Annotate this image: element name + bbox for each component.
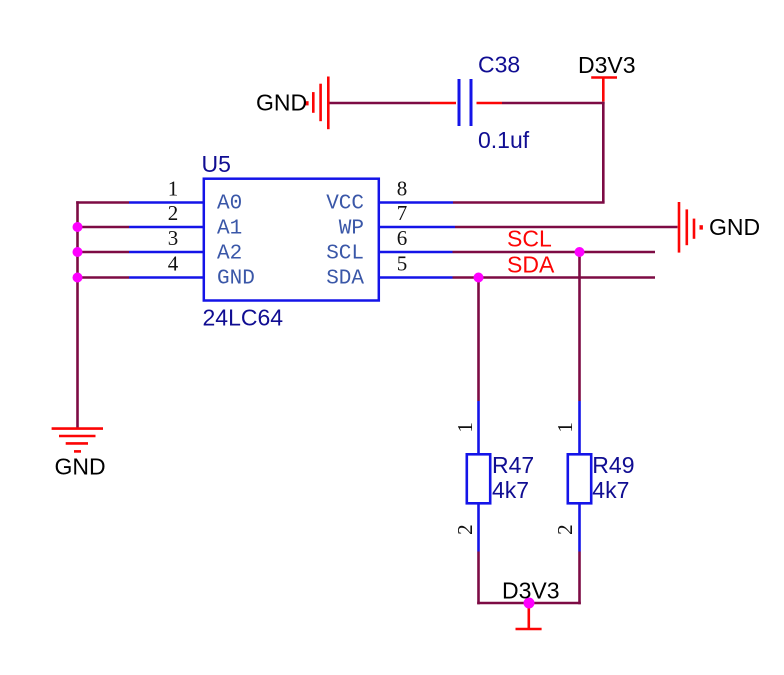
svg-text:1: 1 bbox=[453, 422, 477, 433]
svg-text:D3V3: D3V3 bbox=[502, 578, 560, 604]
svg-text:SCL: SCL bbox=[326, 243, 364, 266]
svg-text:SDA: SDA bbox=[326, 268, 364, 291]
svg-text:D3V3: D3V3 bbox=[578, 52, 636, 78]
svg-text:A1: A1 bbox=[217, 218, 242, 241]
svg-text:4k7: 4k7 bbox=[592, 477, 629, 503]
svg-text:C38: C38 bbox=[478, 51, 520, 77]
svg-text:GND: GND bbox=[217, 268, 255, 291]
svg-text:1: 1 bbox=[553, 422, 577, 433]
svg-text:1: 1 bbox=[168, 177, 179, 201]
svg-text:SCL: SCL bbox=[507, 226, 552, 252]
svg-text:2: 2 bbox=[453, 524, 477, 535]
svg-text:2: 2 bbox=[553, 524, 577, 535]
svg-text:GND: GND bbox=[55, 454, 106, 480]
svg-text:WP: WP bbox=[339, 218, 364, 241]
svg-text:U5: U5 bbox=[202, 151, 231, 177]
svg-text:2: 2 bbox=[168, 201, 179, 225]
svg-text:R49: R49 bbox=[592, 452, 634, 478]
svg-text:6: 6 bbox=[397, 226, 408, 250]
svg-text:GND: GND bbox=[709, 214, 760, 240]
svg-text:GND: GND bbox=[256, 90, 307, 116]
svg-text:VCC: VCC bbox=[326, 193, 364, 216]
svg-text:3: 3 bbox=[168, 226, 179, 250]
svg-text:R47: R47 bbox=[492, 452, 534, 478]
svg-text:8: 8 bbox=[397, 177, 408, 201]
svg-text:5: 5 bbox=[397, 252, 408, 276]
svg-text:A2: A2 bbox=[217, 243, 242, 266]
svg-text:4k7: 4k7 bbox=[492, 477, 529, 503]
svg-text:SDA: SDA bbox=[507, 252, 555, 278]
svg-text:0.1uf: 0.1uf bbox=[478, 127, 530, 153]
svg-text:24LC64: 24LC64 bbox=[203, 305, 284, 331]
svg-text:4: 4 bbox=[168, 252, 179, 276]
svg-text:7: 7 bbox=[397, 201, 408, 225]
svg-text:A0: A0 bbox=[217, 193, 242, 216]
